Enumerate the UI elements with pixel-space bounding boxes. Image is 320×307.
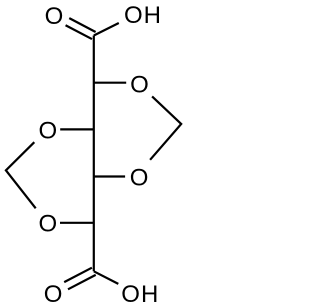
svg-text:O: O	[44, 281, 63, 307]
svg-text:O: O	[130, 165, 149, 192]
svg-text:O: O	[38, 210, 57, 237]
svg-text:O: O	[38, 118, 57, 145]
svg-text:O: O	[45, 3, 64, 30]
svg-text:OH: OH	[121, 281, 159, 307]
svg-text:O: O	[130, 71, 149, 98]
svg-text:OH: OH	[124, 2, 162, 29]
